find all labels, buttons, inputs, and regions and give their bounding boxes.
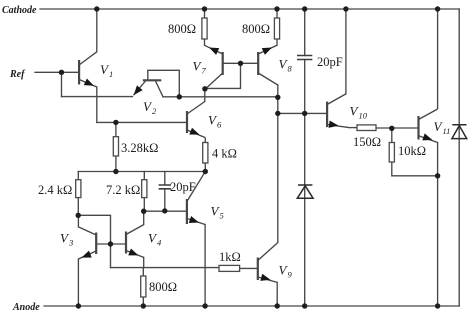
node bottom rail V9 (275, 303, 280, 308)
transistor V6 base bar (186, 111, 188, 133)
node R2.4k bottom junction (76, 213, 81, 218)
transistor V7 diagonals (205, 45, 223, 88)
wire R7.2k bottom lead (143, 198, 145, 212)
wire V7 base to collector L (206, 63, 241, 88)
svg-text:10kΩ: 10kΩ (398, 144, 426, 158)
capacitor C1 20pF left plates (159, 185, 171, 189)
resistor R2.4k (76, 180, 81, 198)
svg-text:3.28kΩ: 3.28kΩ (121, 141, 158, 155)
node top rail R800a (202, 6, 207, 11)
transistor V3 diagonals (78, 227, 96, 259)
resistor R3.28k (113, 137, 118, 156)
wire cap C1 top lead (164, 172, 166, 186)
wire net y175 (392, 175, 438, 177)
svg-text:800Ω: 800Ω (168, 22, 196, 36)
wire R10k top lead (391, 128, 393, 142)
transistor V11 diagonals (419, 109, 438, 143)
wire net y96 left segment (62, 96, 133, 98)
wire V11 emitter column (437, 143, 439, 307)
wire R4k bottom lead (204, 163, 206, 172)
wire V8 collector drop (277, 85, 279, 97)
wire R7.2k top lead (143, 172, 145, 180)
resistor R800a 800ohm top left (202, 18, 207, 39)
wire V4 emitter drop (143, 257, 145, 267)
wire V9 emitter drop (276, 282, 278, 306)
svg-text:6: 6 (217, 120, 222, 130)
wire R150 to V11 base (376, 127, 419, 129)
resistor R1k horizontal (219, 265, 240, 271)
svg-text:5: 5 (220, 211, 224, 221)
arrow V1 emitter (84, 78, 96, 89)
node R3.28k top junction (113, 120, 118, 125)
wire cathode top rail (40, 8, 459, 10)
svg-text:Cathode: Cathode (2, 5, 37, 16)
wire V5 base net y211 (144, 210, 187, 212)
node top rail V10 collector (343, 6, 348, 11)
node top rail C2 (302, 6, 307, 11)
svg-text:8: 8 (288, 64, 293, 74)
wire V10 emitter to R150 (349, 127, 357, 129)
transistor V4 base bar (125, 232, 127, 254)
svg-text:7: 7 (202, 66, 207, 76)
node bottom rail D1 (302, 303, 307, 308)
node R3.28k bottom junction (113, 169, 118, 174)
wire R3.28k bottom lead (115, 156, 117, 172)
node R4k bottom junction (203, 169, 208, 174)
wire V3 collector riser (77, 215, 79, 227)
transistor V5 base bar (186, 199, 188, 224)
svg-text:4 kΩ: 4 kΩ (212, 147, 237, 161)
wire V2 base loop (148, 70, 180, 97)
transistor V8 base bar (257, 52, 259, 75)
wire V11 collector riser (437, 9, 439, 109)
transistor V4 diagonals (126, 225, 144, 258)
node top rail V11 collector (435, 6, 440, 11)
node C2 y113 junction (302, 111, 307, 116)
transistor V3 base bar (95, 233, 97, 255)
transistor V2 base bar (143, 79, 162, 81)
resistor R10k (389, 143, 394, 163)
wire net y215 to mirror bases (78, 215, 110, 244)
svg-text:150Ω: 150Ω (353, 135, 381, 149)
wire R1k to V9 base (240, 267, 258, 269)
wire V1 collector riser (96, 9, 98, 52)
node top rail V1 collector (94, 6, 99, 11)
svg-text:7.2 kΩ: 7.2 kΩ (106, 183, 140, 197)
svg-text:Anode: Anode (12, 302, 40, 313)
arrow V2 emitter (131, 85, 143, 97)
wire R10k bottom lead (391, 162, 393, 176)
wire R800c bottom lead (142, 297, 144, 306)
resistor R800b 800ohm top right (274, 18, 279, 39)
wire cap C1 bottom lead (164, 189, 166, 211)
transistor V1 base bar (78, 60, 80, 85)
wire V5 emitter column (204, 225, 206, 307)
wire V10 collector riser (345, 9, 347, 94)
transistor V2 diagonals (134, 81, 164, 97)
resistor R4k (203, 143, 208, 164)
wire net y96 right segment (163, 96, 278, 98)
svg-text:11: 11 (443, 126, 451, 136)
wire V7 V8 base net (223, 62, 259, 64)
wire x278 vertical to V9 collector (277, 97, 279, 242)
wire Ref node down (61, 72, 63, 96)
transistor V7 base bar (222, 52, 224, 75)
svg-text:20pF: 20pF (170, 180, 196, 194)
svg-text:Ref: Ref (9, 69, 26, 80)
wire V1 emitter drop (96, 87, 98, 122)
transistor V1 collector emitter diagonals (79, 52, 97, 87)
node bottom rail R800c (141, 303, 146, 308)
transistor V9 diagonals (258, 242, 278, 282)
arrow V7 emitter (207, 44, 219, 55)
node V7 V8 base junction (238, 61, 243, 66)
resistor R7.2k (142, 180, 147, 198)
node V11 base junction (389, 126, 394, 131)
wire R800a bottom lead (204, 39, 206, 45)
node bottom rail V5 (202, 303, 207, 308)
node R7.2k bottom junction (141, 209, 146, 214)
wire V6 collector riser (204, 89, 206, 102)
wire R800a top lead (204, 9, 206, 18)
node Ref junction (59, 70, 64, 75)
node top rail R800b (274, 6, 279, 11)
svg-text:1: 1 (109, 69, 113, 79)
wire R2.4k top lead (77, 172, 79, 180)
wire V10 base net y113 (278, 112, 327, 114)
svg-text:4: 4 (157, 238, 162, 248)
wire Ref stub (35, 71, 79, 73)
wire V3 V4 base net (96, 243, 126, 245)
resistor R800c 800ohm bottom (141, 276, 146, 297)
resistor R150 horizontal (357, 125, 376, 131)
arrow V11 emitter (422, 133, 433, 143)
wire R2.4k bottom lead (77, 198, 79, 216)
capacitor C2 20pF right plates (297, 56, 312, 60)
transistor V11 base bar (417, 116, 419, 140)
svg-text:2.4 kΩ: 2.4 kΩ (38, 183, 72, 197)
arrow V4 emitter (128, 249, 140, 259)
diode D2 right (452, 125, 467, 139)
svg-text:10: 10 (359, 111, 368, 121)
transistor V8 diagonals (258, 45, 278, 85)
node bottom rail V11 (435, 303, 440, 308)
arrow V3 emitter (80, 251, 92, 261)
wire cap C2 top lead (304, 9, 306, 56)
wire V6 base net (97, 121, 187, 123)
transistor V9 base bar (257, 258, 259, 281)
wire R800b top lead (276, 9, 278, 18)
arrow V5 emitter (189, 216, 200, 226)
svg-text:800Ω: 800Ω (149, 280, 177, 294)
arrow V10 emitter (329, 121, 340, 130)
svg-text:1kΩ: 1kΩ (219, 250, 241, 264)
node mirror base junction (108, 241, 113, 246)
svg-text:20pF: 20pF (317, 55, 343, 69)
wire net y267 (111, 267, 220, 269)
arrow V8 emitter (262, 44, 274, 55)
transistor V6 diagonals (187, 102, 205, 143)
wire cap C2 bottom lead and diode column (304, 60, 306, 307)
node x278 y113 junction (275, 111, 280, 116)
node C1 bottom junction (162, 208, 167, 213)
diode D1 middle (297, 185, 313, 198)
svg-text:9: 9 (288, 270, 293, 280)
transistor V10 base bar (326, 102, 328, 128)
wire right edge vertical (458, 9, 460, 306)
transistor V10 diagonals (327, 94, 349, 128)
wire R3.28k top lead (115, 122, 117, 136)
arrow V9 emitter (260, 274, 271, 284)
wire anode bottom rail (44, 305, 459, 307)
svg-text:800Ω: 800Ω (242, 22, 270, 36)
transistor V5 diagonals (187, 172, 205, 224)
wire net y171 (78, 171, 205, 173)
wire base node down (110, 244, 112, 268)
arrow V6 emitter (189, 128, 201, 138)
wire R800b bottom lead (276, 39, 278, 45)
wire V4 collector riser (143, 211, 145, 224)
node V11 emitter junction (435, 173, 440, 178)
svg-text:3: 3 (68, 238, 73, 248)
node bottom rail V3 (76, 303, 81, 308)
node V8 collector junction (275, 95, 280, 100)
svg-text:2: 2 (152, 106, 157, 116)
node V2 loop junction (177, 94, 182, 99)
node V7 collector junction (202, 86, 207, 91)
wire V3 emitter drop (77, 259, 79, 306)
wire R800c top lead (142, 268, 144, 276)
